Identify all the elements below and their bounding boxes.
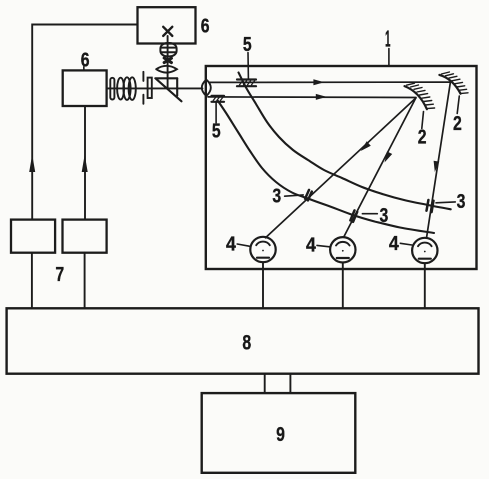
box 8 (7, 308, 479, 373)
svg-text:4: 4 (389, 233, 400, 255)
tick 4 no2 (317, 245, 330, 246)
box 1 spectrometer (206, 66, 477, 269)
arrow beam1 (313, 79, 324, 85)
svg-text:3: 3 (380, 205, 389, 227)
order mark 3 left (305, 190, 312, 201)
tick 3 left (285, 195, 304, 196)
detector 4 no3 (412, 238, 437, 263)
beamsplitter prism (155, 78, 181, 101)
tick 6 left (83, 67, 85, 71)
axis horizontal left (107, 87, 203, 89)
box 6 left (63, 70, 107, 106)
mirror 2 right (439, 75, 460, 94)
svg-text:2: 2 (453, 113, 462, 135)
beam to det3 (427, 82, 451, 238)
arrow up right (82, 155, 88, 173)
grating 5 lower (212, 96, 225, 102)
connector 8-9 a (264, 374, 266, 393)
svg-text:6: 6 (81, 50, 90, 72)
lens L1 (156, 66, 177, 73)
wire 7L to 8 (31, 253, 33, 309)
wire det2 to 8 (342, 263, 344, 309)
svg-text:3: 3 (272, 186, 281, 208)
curve A first order (239, 73, 451, 210)
tick 3 middle (362, 213, 377, 215)
tick 2 middle (422, 112, 424, 129)
beam to det1 (266, 98, 416, 238)
wire 7R to 8 (84, 253, 86, 309)
beam to det2 (344, 98, 416, 237)
tick 4 no3 (400, 243, 412, 245)
wire box6 left down (84, 106, 86, 219)
svg-text:4: 4 (226, 234, 237, 256)
order mark 3 middle (350, 210, 357, 221)
svg-text:6: 6 (201, 16, 210, 38)
order mark 3 right (427, 200, 434, 212)
beam 1 upper (209, 81, 450, 83)
mirror 2 middle (405, 86, 427, 109)
tick 4 no1 (237, 244, 249, 246)
svg-text:4: 4 (306, 235, 317, 257)
condenser barrel (160, 43, 176, 56)
box 7 left (11, 220, 55, 253)
box 7 right (63, 220, 107, 253)
aperture stop (164, 58, 171, 63)
wire top feedback (32, 25, 137, 220)
arrow beam2 (316, 94, 327, 100)
lamp X (163, 27, 172, 36)
tick 2 right (457, 96, 459, 114)
tick 5 lower (215, 103, 217, 123)
box 6 top (138, 7, 196, 43)
svg-text:1: 1 (385, 25, 391, 51)
svg-text:9: 9 (276, 424, 285, 446)
svg-text:2: 2 (418, 126, 427, 148)
grating 5 upper (237, 80, 256, 87)
arrow det3 (434, 161, 440, 172)
detector 4 no2 (330, 237, 355, 262)
tick 3 right (436, 201, 455, 204)
svg-text:5: 5 (212, 120, 221, 142)
box 9 (202, 393, 356, 473)
connector 8-9 b (289, 374, 291, 393)
svg-text:8: 8 (242, 330, 251, 354)
lens group collimator (110, 77, 135, 100)
svg-text:3: 3 (457, 191, 466, 213)
slit (143, 72, 151, 104)
wire lamp axis (167, 36, 169, 89)
wire det1 to 8 (262, 262, 264, 308)
beam 2 lower (208, 96, 416, 99)
detector 4 no1 (250, 237, 275, 262)
arrow det2 (385, 151, 393, 162)
entrance lens (202, 80, 211, 96)
wire det3 to 8 (424, 263, 426, 308)
curve B second order (218, 101, 434, 233)
svg-text:7: 7 (55, 264, 64, 286)
tick 1 (388, 49, 390, 66)
tick 5 upper (247, 53, 249, 79)
arrow up left (29, 155, 35, 173)
arrow det1 (361, 141, 371, 151)
